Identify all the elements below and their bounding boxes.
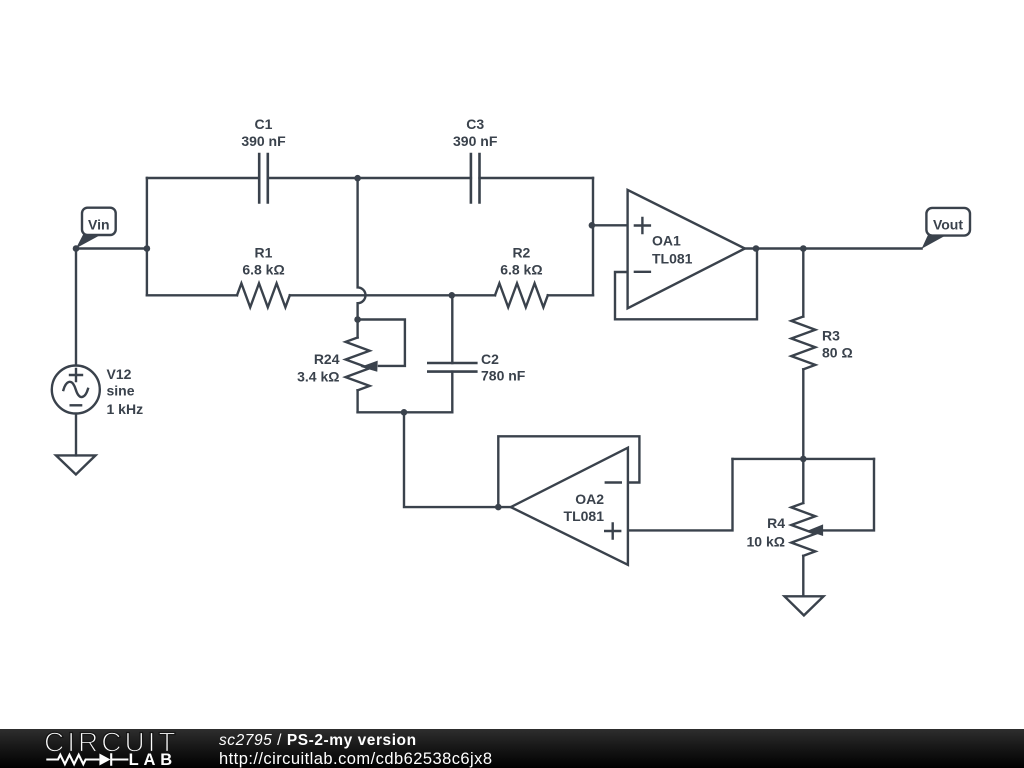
- wire R24 top lead: [356, 320, 358, 338]
- svg-text:R2: R2: [512, 245, 530, 261]
- capacitor C1: [259, 154, 268, 203]
- wire C2 top lead: [451, 295, 453, 363]
- svg-text:R3: R3: [822, 327, 840, 343]
- svg-text:C2: C2: [481, 351, 499, 367]
- wire R2 to right vertical: [548, 294, 593, 296]
- op-amp OA1 plus input symbol: [635, 218, 650, 233]
- svg-text:OA1: OA1: [652, 232, 681, 248]
- op-amp U2 OA2: [511, 448, 628, 565]
- wire R4 box top: [733, 458, 875, 460]
- svg-text:6.8 kΩ: 6.8 kΩ: [500, 262, 542, 278]
- node Vout tag pointer: [922, 235, 944, 249]
- V12 minus symbol: [71, 404, 81, 406]
- wire R24 bottom lead: [356, 390, 358, 412]
- capacitor C2: [428, 363, 476, 372]
- svg-text:Vout: Vout: [933, 217, 963, 233]
- svg-text:http://circuitlab.com/cdb62538: http://circuitlab.com/cdb62538c6jx8: [219, 750, 492, 768]
- junction node OA1 plus input tap: [589, 222, 596, 229]
- svg-text:TL081: TL081: [564, 508, 605, 524]
- wire bottom between R24 and C2: [358, 411, 453, 413]
- svg-text:390 nF: 390 nF: [453, 133, 498, 149]
- wire R4 top lead: [802, 459, 804, 503]
- svg-text:6.8 kΩ: 6.8 kΩ: [242, 262, 284, 278]
- potentiometer R24: [346, 338, 370, 391]
- svg-text:780 nF: 780 nF: [481, 368, 526, 384]
- junction node at Vin: [73, 245, 80, 252]
- potentiometer R4: [791, 503, 815, 556]
- wire top junction to C3: [358, 177, 471, 179]
- svg-text:C3: C3: [466, 116, 484, 132]
- wire mid left to R1: [147, 294, 237, 296]
- svg-text:1 kHz: 1 kHz: [107, 401, 144, 417]
- wire vertical with hop over mid wire: [358, 178, 366, 320]
- svg-text:390 nF: 390 nF: [241, 133, 286, 149]
- resistor R2: [495, 283, 548, 307]
- wire right vertical x=593: [592, 178, 594, 295]
- wire R24 wiper loop: [358, 320, 405, 366]
- svg-text:V12: V12: [107, 366, 132, 382]
- svg-text:sine: sine: [107, 383, 135, 399]
- op-amp OA2 minus input symbol: [606, 481, 621, 483]
- wire R1 to C2 junction to R2: [290, 294, 495, 296]
- junction node bottom wire to OA2: [401, 409, 408, 416]
- footer logo diode triangle: [99, 754, 110, 766]
- op-amp OA1 minus input symbol: [635, 271, 650, 273]
- wire top C1 to junction: [268, 177, 358, 179]
- resistor R3: [791, 317, 815, 370]
- resistor R1: [237, 283, 290, 307]
- ground below R4: [785, 596, 824, 615]
- svg-text:sc2795 / PS-2-my version: sc2795 / PS-2-my version: [219, 732, 417, 749]
- wire bottom junction to OA2 input: [404, 412, 511, 507]
- wire OA2 feedback loop: [498, 436, 639, 507]
- op-amp OA2 plus input symbol: [605, 524, 620, 539]
- wire R3 bottom lead: [802, 369, 804, 459]
- junction node C2 top: [449, 292, 456, 299]
- svg-text:C1: C1: [255, 116, 273, 132]
- wire OA1 inverting stub and feedback loop: [615, 249, 757, 320]
- node Vin tag box: [82, 208, 116, 235]
- svg-text:3.4 kΩ: 3.4 kΩ: [297, 369, 339, 385]
- wire V12 bottom lead: [75, 414, 77, 456]
- svg-text:TL081: TL081: [652, 251, 693, 267]
- node Vout tag box: [926, 208, 970, 236]
- svg-text:R4: R4: [767, 515, 785, 531]
- wire OA1 output to Vout: [745, 247, 922, 249]
- wire R4 bottom lead: [802, 556, 804, 597]
- voltage source V12: [52, 366, 100, 414]
- op-amp U1 OA1: [628, 190, 745, 308]
- ground below V12: [56, 455, 96, 474]
- svg-text:80 Ω: 80 Ω: [822, 345, 853, 361]
- wire OA1 noninverting input stub: [592, 224, 628, 226]
- wire top C3 to right vertical: [480, 177, 594, 179]
- junction node output-R3: [800, 245, 807, 252]
- V12 plus symbol: [70, 369, 82, 381]
- junction node OA1 output-feedback: [753, 245, 760, 252]
- svg-text:R24: R24: [314, 351, 340, 367]
- wire Vin to left vertical: [76, 247, 147, 249]
- potentiometer R4 wiper arrow: [807, 524, 823, 536]
- V12 sine symbol: [63, 382, 88, 397]
- wire R3 top lead: [802, 249, 804, 317]
- wire left vertical: [146, 178, 148, 295]
- svg-text:R1: R1: [255, 245, 273, 261]
- footer bar: [0, 729, 1024, 768]
- capacitor C3: [471, 154, 480, 203]
- junction node OA2 input-feedback: [495, 504, 502, 511]
- footer logo resistor-diode glyph: [46, 753, 128, 765]
- svg-text:OA2: OA2: [575, 491, 604, 507]
- potentiometer R24 wiper arrow: [361, 361, 378, 372]
- wire OA2 output to R4 box left: [628, 459, 733, 531]
- junction node R24 top: [354, 316, 361, 323]
- junction node R3-R4 box: [800, 456, 807, 463]
- wire C2 bottom lead: [451, 372, 453, 413]
- wire V12 top lead: [75, 249, 77, 366]
- svg-text:LAB: LAB: [129, 751, 177, 768]
- svg-text:Vin: Vin: [88, 216, 110, 232]
- wire R4 box right and wiper: [820, 459, 874, 531]
- junction node Vin wire to left vertical: [144, 245, 151, 252]
- svg-text:10 kΩ: 10 kΩ: [747, 533, 785, 549]
- wire top from left vertical to C1: [147, 177, 259, 179]
- junction node top wire C1-C3: [354, 175, 361, 182]
- node Vin tag pointer: [76, 234, 99, 249]
